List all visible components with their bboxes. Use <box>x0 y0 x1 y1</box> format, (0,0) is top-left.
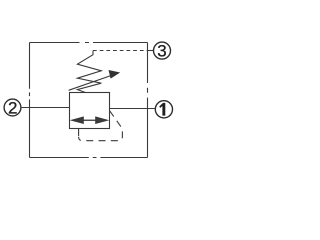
pilot drain dashed run <box>79 111 123 141</box>
spring (adjustable) <box>77 51 101 93</box>
enclosure boundary left edge <box>29 43 31 158</box>
double arrow in valve square <box>70 116 110 124</box>
port 2 circle <box>4 99 21 116</box>
enclosure boundary bottom edge <box>30 157 148 159</box>
pilot line to port 3 (dashed) <box>93 50 148 52</box>
svg-text:2: 2 <box>8 99 17 118</box>
svg-text:3: 3 <box>157 42 166 61</box>
adjustment arrow head <box>109 70 121 79</box>
pilot drain stub at valve bottom <box>78 129 80 137</box>
port 1 circle <box>155 101 172 118</box>
adjustment arrow shaft <box>69 75 112 90</box>
wire port 3 stub <box>148 50 154 52</box>
wire port 1 line <box>110 108 155 110</box>
valve envelope square <box>70 93 110 129</box>
wire port 2 line <box>22 107 70 109</box>
port 3 circle <box>154 42 171 59</box>
enclosure boundary top edge <box>30 42 148 44</box>
port 1 label <box>159 103 165 116</box>
enclosure boundary right edge <box>147 43 149 158</box>
